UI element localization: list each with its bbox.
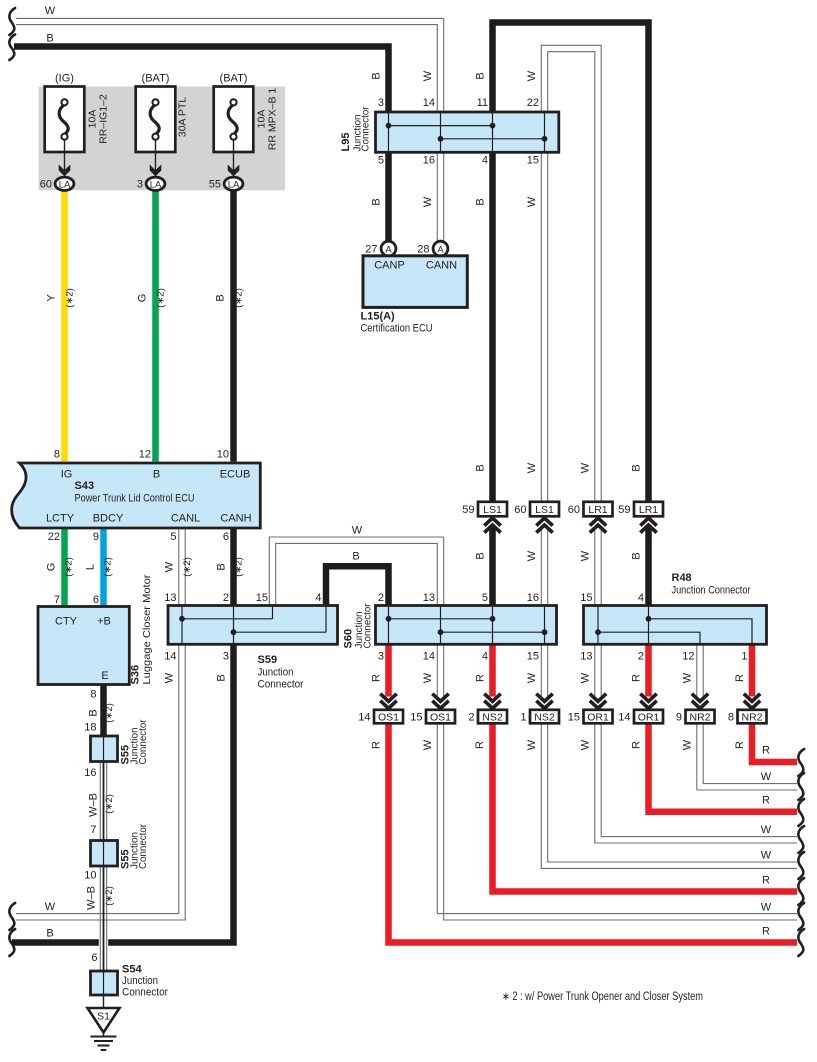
svg-text:3: 3 — [137, 179, 143, 191]
svg-text:OS1: OS1 — [430, 711, 451, 723]
svg-text:2: 2 — [638, 651, 644, 663]
svg-text:B: B — [216, 674, 228, 681]
wire B CANH (S43 CANH down through S59 to bottom left edge) — [12, 528, 234, 943]
wire R red (NS2 2 down and right to edge) — [493, 724, 798, 892]
connector A pin 28 (CANN) — [433, 241, 448, 256]
wire L blue (S43 BDCY to S36 +B) — [100, 528, 107, 607]
svg-text:Connector: Connector — [362, 603, 374, 648]
node L95 pin 3-11 link — [386, 123, 392, 129]
wire W (S59 pin 15 up and over to S60 pin 13) — [269, 537, 443, 606]
svg-text:R: R — [371, 741, 383, 749]
svg-text:16: 16 — [84, 767, 96, 779]
svg-text:W: W — [761, 824, 772, 836]
svg-text:4: 4 — [482, 651, 488, 663]
svg-text:B: B — [371, 72, 383, 79]
svg-text:Connector: Connector — [122, 987, 168, 999]
svg-text:G: G — [137, 294, 149, 303]
wire B (L95 pin 4 down to LS1 connector 59) — [489, 152, 496, 502]
svg-text:(∗2): (∗2) — [104, 703, 115, 723]
svg-text:5: 5 — [482, 592, 488, 604]
wire break symbol (R run 8) — [798, 929, 804, 956]
wire W (L95 pin 22 up and over to LR1 connector) — [541, 45, 601, 502]
svg-text:W: W — [580, 672, 592, 683]
svg-text:59: 59 — [618, 504, 630, 516]
connector A pin 27 (CANP) — [381, 241, 396, 256]
svg-text:W: W — [526, 70, 538, 81]
node R48 B link — [646, 616, 652, 622]
svg-text:8: 8 — [54, 449, 60, 461]
svg-text:6: 6 — [223, 531, 229, 543]
svg-text:18: 18 — [84, 722, 96, 734]
svg-text:L: L — [85, 564, 97, 570]
node S60 B link — [386, 616, 392, 622]
svg-text:Y: Y — [46, 294, 58, 302]
connector LR1 pin 59 — [634, 502, 663, 517]
svg-text:LA: LA — [228, 179, 240, 190]
svg-text:22: 22 — [48, 531, 60, 543]
svg-text:16: 16 — [527, 592, 539, 604]
svg-text:CANH: CANH — [220, 513, 251, 525]
svg-text:LS1: LS1 — [483, 504, 502, 516]
svg-text:27: 27 — [365, 244, 377, 256]
svg-text:S36: S36 — [130, 665, 142, 685]
svg-text:R: R — [762, 875, 770, 887]
wire W (S60 pin 14 to OS1 connector 15) — [436, 644, 438, 696]
svg-text:(IG): (IG) — [55, 73, 74, 85]
svg-text:Connector: Connector — [137, 719, 149, 764]
wire break symbol (W run 5) — [798, 852, 804, 879]
svg-text:S54: S54 — [122, 964, 142, 976]
svg-text:Connector: Connector — [258, 679, 304, 691]
svg-text:12: 12 — [139, 449, 151, 461]
motor S36 Luggage Closer Motor — [38, 607, 129, 685]
svg-text:15: 15 — [580, 592, 592, 604]
junction connector R48 — [584, 606, 767, 645]
svg-text:W: W — [526, 672, 538, 683]
svg-text:CANP: CANP — [374, 259, 405, 271]
svg-text:Junction: Junction — [258, 667, 294, 679]
svg-text:W: W — [526, 462, 538, 473]
svg-text:L95: L95 — [340, 133, 352, 152]
svg-text:B: B — [475, 552, 487, 559]
svg-text:10: 10 — [217, 449, 229, 461]
svg-text:W: W — [580, 462, 592, 473]
connector LA pin 3 — [146, 177, 165, 190]
node R48 W link — [595, 629, 601, 635]
connector LR1 pin 60 — [584, 502, 613, 517]
wire W (top left horizontal to L95 pin 14) — [16, 18, 444, 112]
svg-text:NR2: NR2 — [741, 711, 762, 723]
svg-text:R: R — [475, 674, 487, 682]
svg-text:B: B — [352, 551, 359, 563]
svg-text:(∗2): (∗2) — [156, 288, 167, 308]
svg-text:B: B — [371, 198, 383, 205]
junction connector S60 — [376, 606, 557, 645]
svg-text:W: W — [164, 672, 176, 683]
svg-text:1: 1 — [520, 711, 526, 723]
svg-text:Junction Connector: Junction Connector — [672, 585, 751, 597]
svg-text:14: 14 — [164, 651, 176, 663]
svg-text:13: 13 — [423, 592, 435, 604]
svg-text:S43: S43 — [75, 480, 95, 492]
svg-text:RR–IG1–2: RR–IG1–2 — [98, 94, 110, 144]
wire W-B (S55 to S54) — [99, 938, 108, 948]
svg-text:22: 22 — [527, 97, 539, 109]
node L95 pin 14-22 link — [438, 136, 444, 142]
svg-text:11: 11 — [477, 97, 488, 109]
ground S1 triangle — [88, 1008, 120, 1033]
svg-text:CANL: CANL — [171, 513, 200, 525]
arrowhead into connector LA (3) — [150, 165, 162, 177]
wire W (R48 pin 12 to NR2 connector 9) — [696, 644, 698, 696]
svg-text:OS1: OS1 — [378, 711, 399, 723]
wire R red (R48 pin 1 to NR2 connector 8) — [749, 644, 756, 696]
svg-text:B: B — [215, 294, 227, 301]
svg-text:BDCY: BDCY — [93, 513, 124, 525]
svg-text:R: R — [371, 674, 383, 682]
svg-text:W: W — [422, 196, 434, 207]
svg-text:28: 28 — [417, 244, 429, 256]
svg-text:+B: +B — [97, 616, 111, 628]
svg-text:W–B: W–B — [86, 886, 98, 910]
svg-text:15: 15 — [410, 711, 422, 723]
svg-text:OR1: OR1 — [638, 711, 660, 723]
svg-text:14: 14 — [358, 711, 370, 723]
svg-text:W: W — [164, 561, 176, 572]
svg-text:(BAT): (BAT) — [142, 73, 170, 85]
svg-text:LR1: LR1 — [639, 504, 658, 516]
svg-text:B: B — [153, 469, 160, 481]
wire break symbol (R run 3) — [798, 799, 804, 826]
wire G green (fuse PTL to S43 pin 12) — [152, 190, 159, 461]
svg-text:5: 5 — [378, 155, 384, 167]
ground symbol — [103, 1033, 105, 1037]
svg-text:W: W — [526, 196, 538, 207]
svg-text:R: R — [631, 674, 643, 682]
svg-text:W–B: W–B — [88, 793, 100, 817]
svg-text:2: 2 — [223, 592, 229, 604]
svg-text:(∗2): (∗2) — [234, 288, 245, 308]
svg-text:14: 14 — [423, 651, 435, 663]
svg-text:W: W — [682, 739, 694, 750]
svg-text:B: B — [475, 198, 487, 205]
svg-text:55: 55 — [209, 179, 221, 191]
wire W (S60 pin 15 to NS2 connector 1) — [540, 644, 542, 696]
connector NR2 pin 9 — [692, 694, 708, 702]
svg-text:(∗2): (∗2) — [103, 557, 114, 577]
svg-text:LA: LA — [59, 179, 71, 190]
svg-text:(∗2): (∗2) — [65, 288, 76, 308]
svg-text:3: 3 — [223, 651, 229, 663]
svg-text:Junction: Junction — [122, 975, 158, 987]
svg-text:B: B — [46, 33, 53, 45]
connector OR1 pin 15 — [590, 694, 606, 702]
wire W (L95 pin 15 down to LS1 connector 60) — [540, 152, 542, 502]
svg-text:16: 16 — [423, 155, 435, 167]
svg-text:L15(A): L15(A) — [361, 311, 396, 323]
svg-text:R: R — [474, 741, 486, 749]
svg-text:12: 12 — [682, 651, 694, 663]
svg-text:60: 60 — [514, 504, 526, 516]
wire break symbol (W run 2) — [798, 773, 804, 800]
wire B (L95 pin 11 up and over to LR1 connector) — [493, 23, 649, 502]
wire W (LR1 connector 60 down to R48 pin 15) — [594, 526, 596, 606]
svg-text:(∗2): (∗2) — [64, 557, 75, 577]
connector LS1 pin 60 — [530, 502, 559, 517]
svg-text:R: R — [762, 795, 770, 807]
node S60 W link — [438, 629, 444, 635]
svg-text:(∗2): (∗2) — [104, 794, 115, 814]
svg-text:B: B — [88, 709, 100, 716]
wire W (LS1 connector 60 down to S60 pin 16) — [540, 526, 542, 606]
wire B (L95 pin 5 to CANP) — [385, 152, 392, 242]
svg-text:LS1: LS1 — [535, 504, 554, 516]
svg-text:30A PTL: 30A PTL — [177, 97, 189, 137]
wire W (OS1 15 down and right to edge) — [437, 724, 797, 914]
svg-text:Connector: Connector — [137, 824, 149, 869]
svg-text:OR1: OR1 — [587, 711, 609, 723]
svg-text:A: A — [437, 244, 444, 255]
svg-text:15: 15 — [527, 155, 539, 167]
svg-text:W: W — [422, 672, 434, 683]
svg-text:NR2: NR2 — [689, 711, 710, 723]
svg-text:5: 5 — [170, 531, 176, 543]
svg-text:R: R — [762, 745, 770, 757]
connector LA pin 60 — [55, 177, 74, 190]
svg-text:R: R — [762, 926, 770, 938]
svg-text:W: W — [580, 550, 592, 561]
wire B (top left horizontal to L95 pin 3) — [14, 47, 389, 113]
svg-text:15: 15 — [527, 651, 539, 663]
wire R red (S60 pin 3 to OS1 connector 14) — [385, 644, 392, 696]
svg-text:LCTY: LCTY — [46, 513, 75, 525]
svg-text:15: 15 — [568, 711, 580, 723]
wire break symbol (W run 7) — [798, 903, 804, 930]
svg-text:W: W — [682, 672, 694, 683]
svg-text:(∗2): (∗2) — [234, 557, 245, 577]
node S59 CANL link — [179, 616, 185, 622]
svg-text:2: 2 — [378, 592, 384, 604]
wire R red (OS1 14 down and right to edge) — [389, 724, 798, 943]
svg-text:W: W — [422, 70, 434, 81]
svg-text:S1: S1 — [97, 1011, 110, 1023]
ECU L15(A) Certification ECU — [363, 256, 467, 308]
wire R red (NR2 8 down and right to edge) — [752, 724, 797, 762]
junction connector S59 — [168, 606, 338, 645]
svg-text:15: 15 — [256, 592, 268, 604]
svg-text:8: 8 — [728, 711, 734, 723]
svg-text:W: W — [761, 850, 772, 862]
junction connector L95 — [376, 112, 559, 152]
wire (S54 to ground S1) — [103, 995, 105, 1008]
svg-text:LR1: LR1 — [588, 504, 607, 516]
svg-text:B: B — [46, 927, 53, 939]
svg-text:2: 2 — [468, 711, 474, 723]
wire Y yellow (fuse RR-IG1-2 to S43 pin 8) — [61, 190, 68, 461]
svg-text:B: B — [631, 552, 643, 559]
svg-text:13: 13 — [580, 651, 592, 663]
svg-text:LA: LA — [150, 179, 162, 190]
svg-text:10: 10 — [84, 870, 96, 882]
svg-text:CANN: CANN — [426, 259, 457, 271]
svg-text:8: 8 — [90, 689, 96, 701]
svg-text:R: R — [734, 741, 746, 749]
junction connector S54 — [91, 971, 118, 995]
svg-text:B: B — [631, 464, 643, 471]
svg-text:IG: IG — [61, 469, 73, 481]
connector NS2 pin 1 — [536, 694, 552, 702]
wire W (R48 pin 13 to OR1 connector 15) — [594, 644, 596, 696]
junction connector S55 (upper) — [91, 736, 118, 762]
svg-text:Certification ECU: Certification ECU — [361, 323, 433, 335]
svg-text:W: W — [45, 901, 56, 913]
svg-text:R48: R48 — [672, 572, 692, 584]
wire break symbol (top W) — [9, 8, 15, 35]
ECU S43 Power Trunk Lid Control ECU — [12, 463, 261, 528]
svg-text:ECUB: ECUB — [220, 469, 251, 481]
svg-text:59: 59 — [462, 504, 474, 516]
svg-text:NS2: NS2 — [482, 711, 503, 723]
arrowhead into connector LA (55) — [228, 165, 240, 177]
svg-text:Power Trunk Lid Control ECU: Power Trunk Lid Control ECU — [75, 493, 195, 505]
fuse panel background — [39, 87, 286, 191]
svg-text:NS2: NS2 — [534, 711, 555, 723]
wire break symbol (W run 4) — [798, 826, 804, 853]
svg-text:(∗2): (∗2) — [104, 886, 115, 906]
svg-text:9: 9 — [93, 531, 99, 543]
wire break symbol (bottom B) — [9, 929, 15, 956]
junction connector S55 (lower) — [91, 841, 118, 867]
svg-text:60: 60 — [568, 504, 580, 516]
svg-text:W: W — [761, 902, 772, 914]
svg-text:∗ 2 : w/ Power Trunk Opener an: ∗ 2 : w/ Power Trunk Opener and Closer S… — [502, 991, 703, 1003]
svg-text:3: 3 — [378, 651, 384, 663]
svg-text:B: B — [475, 72, 487, 79]
node S59 CANH link — [231, 629, 237, 635]
svg-text:W: W — [761, 771, 772, 783]
wire G green (S43 LCTY to S36 CTY) — [61, 528, 68, 607]
svg-text:1: 1 — [741, 651, 747, 663]
connector NR2 pin 8 — [744, 694, 760, 702]
wire W (OR1 15 down and right to edge) — [595, 724, 797, 843]
svg-text:B: B — [216, 563, 228, 570]
svg-text:14: 14 — [618, 711, 630, 723]
wire break symbol (bottom W) — [9, 903, 15, 930]
svg-text:4: 4 — [315, 592, 321, 604]
arrowhead into connector LA (60) — [59, 165, 71, 177]
wire W CANL (S43 CANL down through S59 to bottom left edge) — [16, 528, 185, 920]
svg-text:W: W — [45, 5, 56, 17]
svg-text:R: R — [631, 741, 643, 749]
svg-text:6: 6 — [91, 952, 97, 964]
wire break symbol (R run 1) — [798, 749, 804, 776]
svg-text:S59: S59 — [258, 654, 278, 666]
svg-text:W: W — [526, 739, 538, 750]
connector OS1 pin 14 — [380, 694, 396, 702]
svg-text:4: 4 — [482, 155, 488, 167]
svg-text:(BAT): (BAT) — [220, 73, 248, 85]
svg-text:Luggage Closer Motor: Luggage Closer Motor — [141, 574, 153, 685]
connector OS1 pin 15 — [432, 694, 448, 702]
wire B (S59 pin 4 up and over to S60 pin 2) — [326, 566, 389, 605]
svg-text:13: 13 — [164, 592, 176, 604]
wire R red (R48 pin 2 to OR1 connector 14) — [645, 644, 652, 696]
connector LA pin 55 — [224, 177, 243, 190]
wire W (NS2 1 down and right to edge) — [541, 724, 797, 868]
svg-text:W: W — [526, 550, 538, 561]
svg-text:W: W — [352, 525, 363, 537]
svg-text:A: A — [385, 244, 392, 255]
svg-text:60: 60 — [40, 179, 52, 191]
wire R red (S60 pin 4 to NS2 connector 2) — [489, 644, 496, 696]
svg-text:3: 3 — [378, 97, 384, 109]
svg-text:7: 7 — [90, 824, 96, 836]
svg-text:RR MPX–B 1: RR MPX–B 1 — [267, 88, 279, 151]
wire break symbol (top B) — [9, 35, 15, 61]
wire W-B (S55 to S55) — [99, 762, 108, 841]
connector NS2 pin 2 — [484, 694, 500, 702]
wire B black (fuse RR MPX-B to S43 pin 10 ECUB) — [230, 190, 237, 461]
svg-text:4: 4 — [638, 592, 644, 604]
wire W (L95 pin 16 to CANN) — [436, 152, 438, 242]
svg-text:G: G — [46, 563, 58, 572]
svg-text:9: 9 — [676, 711, 682, 723]
wire B (LR1 connector 59 down to R48 pin 4) — [645, 526, 652, 606]
svg-text:14: 14 — [423, 97, 435, 109]
svg-text:Connector: Connector — [360, 106, 372, 151]
svg-text:6: 6 — [93, 594, 99, 606]
svg-text:R: R — [734, 674, 746, 682]
wire break symbol (R run 6) — [798, 878, 804, 905]
wire B (S36 pin E to S55) — [100, 684, 107, 736]
svg-text:7: 7 — [54, 594, 60, 606]
svg-text:W: W — [580, 739, 592, 750]
wire B (LS1 connector 59 down to S60 pin 5) — [489, 526, 496, 606]
svg-text:(∗2): (∗2) — [182, 557, 193, 577]
svg-text:B: B — [475, 464, 487, 471]
connector OR1 pin 14 — [640, 694, 656, 702]
svg-text:E: E — [101, 670, 108, 682]
connector LS1 pin 59 — [478, 502, 507, 517]
wire W (NR2 9 down and right to edge) — [697, 724, 797, 790]
wire R red (OR1 14 down and right to edge) — [649, 724, 798, 812]
svg-text:W: W — [422, 739, 434, 750]
svg-text:CTY: CTY — [55, 616, 78, 628]
